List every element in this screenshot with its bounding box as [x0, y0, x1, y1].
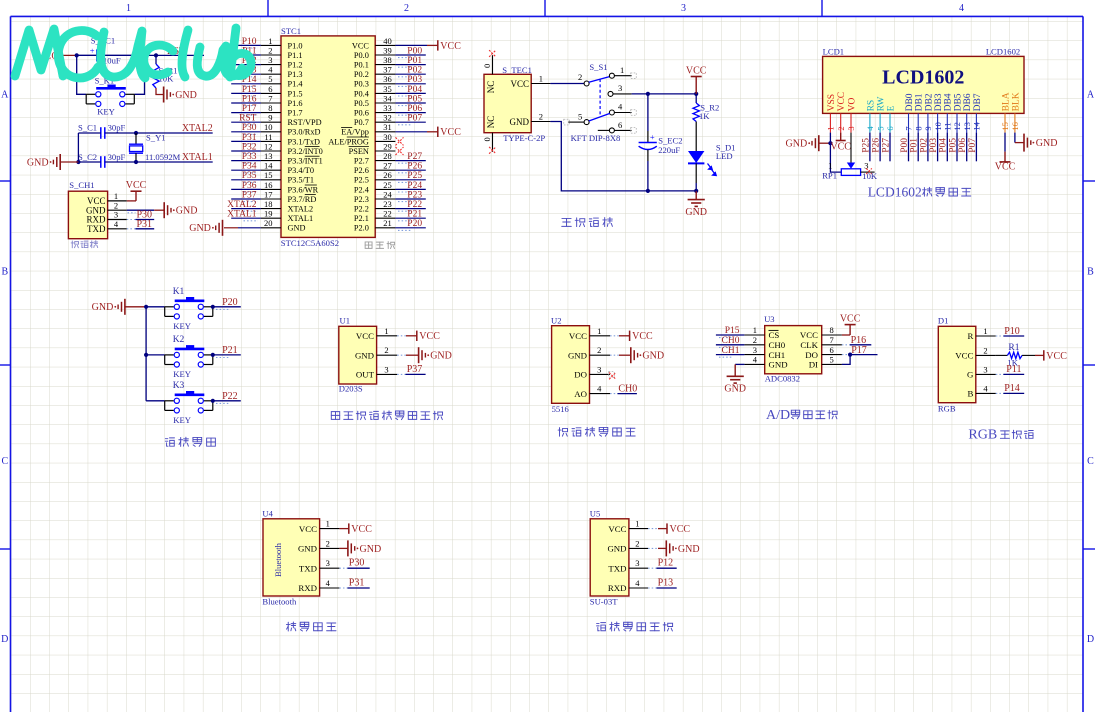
svg-text:CH1: CH1: [722, 346, 740, 356]
svg-text:P2.7: P2.7: [354, 157, 369, 166]
wire: [231, 188, 261, 190]
STC1 pin 28 P2.7: [375, 160, 395, 162]
svg-text:RS: RS: [866, 100, 876, 112]
U3 pin 7 CLK: [822, 344, 842, 346]
zone ticks left/right: [0, 180, 11, 182]
pin 1 VCC: [108, 200, 127, 202]
svg-text:1: 1: [635, 519, 639, 529]
potentiometer RP1 10K: [830, 143, 841, 172]
svg-text:DB5: DB5: [953, 93, 963, 111]
push button S_K1: [77, 55, 87, 94]
svg-text:PSEN: PSEN: [349, 147, 369, 156]
wire U3 CH0: [716, 344, 745, 346]
svg-text:8: 8: [268, 103, 272, 113]
svg-text:P30: P30: [242, 123, 257, 133]
svg-text:10: 10: [933, 122, 943, 131]
svg-text:XTAL1: XTAL1: [227, 210, 257, 220]
STC1 pin 4 P1.3: [261, 73, 281, 75]
svg-text:P16: P16: [242, 94, 257, 104]
svg-text:P07: P07: [968, 138, 978, 153]
wire pin3 P30: [127, 219, 136, 221]
svg-text:P06: P06: [407, 104, 422, 114]
resistor S_R1 10K: [155, 55, 157, 64]
wire LED to gnd: [695, 163, 697, 183]
wire: [231, 64, 261, 66]
svg-text:DO: DO: [574, 370, 587, 380]
power VCC LCD pin2: [840, 133, 842, 141]
svg-text:DB6: DB6: [963, 93, 973, 111]
svg-text:P17: P17: [242, 104, 257, 114]
svg-text:2: 2: [384, 345, 388, 355]
node gnd rail led: [694, 189, 698, 193]
svg-text:B: B: [1087, 267, 1094, 278]
svg-text:GND: GND: [189, 223, 211, 234]
svg-text:12: 12: [264, 141, 273, 151]
svg-text:TXD: TXD: [299, 563, 317, 573]
U3 pin 5 DI: [822, 363, 842, 365]
svg-text:U3: U3: [764, 314, 775, 324]
STC1 pin 23 P2.2: [375, 208, 395, 210]
svg-text:C: C: [1, 456, 8, 467]
svg-text:P00: P00: [900, 138, 910, 153]
D1 pin 1 R: [976, 335, 996, 337]
svg-text:3: 3: [983, 364, 987, 374]
svg-text:P36: P36: [242, 181, 257, 191]
ground U4: [339, 547, 348, 549]
STC1 pin 1 P1.0: [261, 44, 281, 46]
svg-text:P2.4: P2.4: [354, 185, 370, 194]
svg-text:GND: GND: [510, 117, 530, 127]
svg-text:A: A: [1087, 90, 1095, 101]
svg-text:P2.0: P2.0: [354, 224, 369, 233]
ground pin2: [127, 209, 154, 211]
svg-text:P0.1: P0.1: [354, 61, 369, 70]
wire: [395, 102, 425, 104]
ground U2: [610, 354, 619, 356]
svg-text:P32: P32: [242, 142, 257, 152]
U5 pin 4 RXD: [629, 587, 648, 589]
svg-text:D: D: [1087, 634, 1094, 645]
STC1 pin 21 P2.0: [375, 227, 395, 229]
STC1 pin 11 P3.1/TxD: [261, 140, 281, 142]
power VCC D1: [1022, 354, 1035, 356]
wire: [231, 83, 261, 85]
wire: [869, 133, 871, 162]
caption key circuit: [165, 438, 174, 446]
svg-text:P26: P26: [407, 162, 422, 172]
STC1 pin 12 P3.2/INT0: [261, 150, 281, 152]
svg-text:0: 0: [482, 64, 492, 68]
svg-text:P23: P23: [407, 190, 422, 200]
pin 1 VCC: [531, 83, 550, 85]
svg-text:32: 32: [383, 113, 392, 123]
svg-text:11.0592M: 11.0592M: [145, 152, 181, 162]
MCUclub logo: [15, 28, 251, 78]
svg-text:CH1: CH1: [769, 350, 786, 360]
svg-text:1: 1: [620, 65, 624, 75]
STC1 pin 16 P3.6/WR: [261, 188, 281, 190]
svg-text:ADC0832: ADC0832: [765, 374, 800, 384]
svg-text:C: C: [1087, 456, 1094, 467]
wire xtal2 row: [78, 132, 100, 134]
svg-text:RXD: RXD: [608, 583, 627, 593]
svg-text:3: 3: [681, 3, 686, 14]
svg-text:36: 36: [383, 74, 392, 84]
wire: [889, 133, 891, 162]
svg-text:3: 3: [384, 364, 388, 374]
svg-text:9: 9: [923, 126, 933, 130]
svg-text:GND: GND: [568, 350, 587, 360]
node reset-mid: [142, 53, 146, 57]
svg-text:CH0: CH0: [722, 336, 740, 346]
svg-text:P27: P27: [881, 138, 891, 153]
svg-text:VCC: VCC: [440, 127, 461, 138]
D1 pin 3 G: [976, 373, 996, 375]
svg-text:Bluetooth: Bluetooth: [273, 542, 283, 577]
node reset-left: [75, 53, 79, 57]
STC1 pin 19 XTAL1: [261, 217, 281, 219]
svg-text:P21: P21: [407, 210, 422, 220]
svg-text:P0.7: P0.7: [354, 118, 369, 127]
svg-text:22: 22: [383, 209, 392, 219]
STC1 pin 15 P3.5/T1: [261, 179, 281, 181]
svg-text:15: 15: [1000, 122, 1010, 131]
svg-text:VCC: VCC: [800, 330, 818, 340]
no connect: [396, 147, 404, 155]
svg-text:P3.5/T1: P3.5/T1: [288, 176, 315, 185]
svg-text:29: 29: [383, 141, 392, 151]
svg-text:3: 3: [846, 126, 856, 130]
svg-text:U4: U4: [262, 508, 273, 518]
wire: [395, 208, 425, 210]
wire: [395, 121, 425, 123]
svg-text:P12: P12: [658, 558, 674, 569]
svg-text:33: 33: [383, 103, 392, 113]
wire: [395, 188, 425, 190]
wire xtal1 row: [78, 161, 100, 163]
ground for S_R1: [156, 88, 164, 95]
svg-text:GND: GND: [1036, 138, 1058, 149]
svg-text:17: 17: [264, 189, 273, 199]
svg-text:DO: DO: [805, 350, 818, 360]
svg-text:4: 4: [959, 3, 964, 14]
STC1 pin 24 P2.3: [375, 198, 395, 200]
svg-text:13: 13: [264, 151, 273, 161]
svg-text:5: 5: [268, 74, 272, 84]
svg-text:P31: P31: [349, 578, 365, 589]
svg-text:GND: GND: [355, 350, 374, 360]
wire: [231, 121, 261, 123]
svg-text:DB3: DB3: [934, 93, 944, 111]
wire: [231, 102, 261, 104]
U4 pin 3 TXD: [320, 567, 340, 569]
svg-text:1: 1: [826, 126, 836, 130]
wire: [927, 133, 929, 162]
wire: [937, 133, 939, 162]
svg-text:GND: GND: [175, 90, 197, 101]
svg-text:LCD1602: LCD1602: [868, 185, 922, 200]
U2 pin 4 AO: [590, 393, 611, 395]
wire: [231, 150, 261, 152]
svg-text:STC12C5A60S2: STC12C5A60S2: [281, 238, 339, 248]
wire sw3 to rail: [632, 93, 697, 95]
wire U4 TXD: [339, 567, 347, 569]
svg-text:P0.2: P0.2: [354, 70, 369, 79]
svg-text:CH0: CH0: [769, 340, 786, 350]
wire: [231, 112, 261, 114]
power VCC: [695, 77, 697, 94]
svg-text:P33: P33: [242, 152, 257, 162]
svg-text:220uF: 220uF: [658, 145, 680, 155]
svg-text:VCC: VCC: [686, 66, 707, 77]
svg-text:P11: P11: [1006, 364, 1021, 375]
wire: [395, 169, 425, 171]
STC1 pin 6 P1.5: [261, 92, 281, 94]
svg-text:VCC: VCC: [1046, 351, 1067, 362]
svg-text:21: 21: [383, 218, 392, 228]
wire: [975, 133, 977, 162]
U3 pin 8 VCC: [822, 334, 842, 336]
svg-text:RXD: RXD: [298, 583, 317, 593]
wire D1 G: [996, 373, 1004, 375]
svg-text:P26: P26: [872, 138, 882, 153]
svg-text:K3: K3: [173, 381, 185, 391]
svg-text:P1.6: P1.6: [288, 99, 303, 108]
svg-text:P3.6/WR: P3.6/WR: [288, 185, 319, 194]
svg-text:1: 1: [126, 3, 131, 14]
svg-text:KEY: KEY: [173, 321, 191, 331]
wire: [956, 133, 958, 162]
wire: [231, 208, 261, 210]
svg-text:18: 18: [264, 199, 273, 209]
svg-text:P22: P22: [222, 391, 238, 402]
wire: [231, 169, 261, 171]
wire U5 RXD: [648, 587, 656, 589]
no connect: [396, 137, 404, 145]
push button K1: [146, 306, 165, 308]
STC1 pin 31 EA/Vpp: [375, 131, 395, 133]
STC1 pin 30 ALE/PROG: [375, 140, 395, 142]
svg-text:1: 1: [326, 519, 330, 529]
wire: [395, 54, 425, 56]
wire: [231, 73, 261, 75]
svg-text:30pF: 30pF: [108, 123, 126, 133]
svg-text:KEY: KEY: [97, 107, 115, 117]
pin 0 top: [492, 55, 494, 74]
svg-text:1: 1: [983, 326, 987, 336]
svg-text:VCC: VCC: [830, 142, 851, 153]
svg-text:RP1: RP1: [822, 171, 837, 181]
wire: [395, 83, 425, 85]
svg-text:0: 0: [482, 137, 492, 141]
svg-text:DB7: DB7: [973, 93, 983, 111]
STC1 pin 5 P1.4: [261, 83, 281, 85]
wire D1 B: [996, 392, 1004, 394]
svg-text:E: E: [886, 105, 896, 111]
ground U5: [648, 547, 658, 549]
svg-text:P0.3: P0.3: [354, 80, 369, 89]
svg-text:12: 12: [952, 122, 962, 131]
svg-text:P3.3/INT1: P3.3/INT1: [288, 157, 323, 166]
svg-text:DB4: DB4: [944, 93, 954, 111]
node c1c2: [76, 160, 80, 164]
U2 pin 3 DO: [590, 373, 611, 375]
svg-text:3: 3: [597, 364, 601, 374]
svg-text:XTAL2: XTAL2: [182, 123, 213, 134]
svg-text:6: 6: [618, 120, 622, 130]
svg-text:VCC: VCC: [126, 180, 147, 191]
svg-text:S_Y1: S_Y1: [146, 133, 166, 143]
svg-text:1: 1: [539, 73, 543, 83]
svg-text:1: 1: [597, 326, 601, 336]
node reset-r1: [154, 53, 158, 57]
svg-text:P1.4: P1.4: [288, 80, 304, 89]
wire key bus: [145, 307, 147, 401]
power VCC BLA: [1004, 133, 1006, 152]
svg-text:GND: GND: [685, 207, 707, 218]
node gnd rail cap: [646, 189, 650, 193]
svg-text:U1: U1: [340, 315, 351, 325]
U1 pin 2 GND: [377, 354, 398, 356]
svg-text:P02: P02: [919, 138, 929, 153]
STC1 pin 9 RST/VPD: [261, 121, 281, 123]
STC1 pin 3 P1.2: [261, 64, 281, 66]
svg-text:P07: P07: [407, 114, 422, 124]
U4 pin 4 RXD: [320, 587, 340, 589]
wire U1 out: [397, 373, 405, 375]
svg-text:P2.1: P2.1: [354, 214, 369, 223]
svg-text:13: 13: [962, 122, 972, 131]
svg-text:P01: P01: [910, 138, 920, 153]
D1 pin 2 VCC: [976, 354, 996, 356]
svg-text:P34: P34: [242, 162, 257, 172]
STC1 pin 20 GND: [261, 227, 281, 229]
node xtal1: [134, 160, 138, 164]
svg-text:24: 24: [383, 189, 392, 199]
pin name overbars: [305, 146, 320, 148]
wire U3 CLK: [842, 344, 850, 346]
svg-text:2: 2: [983, 345, 987, 355]
wire: [395, 73, 425, 75]
svg-text:2: 2: [578, 72, 582, 82]
svg-text:LED: LED: [716, 151, 733, 161]
svg-text:RGB: RGB: [938, 403, 956, 413]
svg-text:DB1: DB1: [915, 93, 925, 111]
svg-text:GND: GND: [786, 139, 808, 150]
caption PIR module: [331, 412, 339, 420]
svg-text:VCC: VCC: [995, 162, 1016, 173]
svg-text:30: 30: [383, 132, 392, 142]
svg-text:19: 19: [264, 209, 273, 219]
svg-text:G: G: [967, 370, 974, 380]
svg-text:VCC: VCC: [670, 524, 691, 535]
no connect U2 DO: [609, 372, 615, 378]
wire: [231, 44, 261, 46]
svg-text:GND: GND: [724, 384, 746, 395]
svg-text:RGB: RGB: [968, 428, 997, 443]
svg-text:GND: GND: [430, 351, 452, 362]
svg-text:GND: GND: [360, 544, 382, 555]
svg-text:A: A: [1, 90, 9, 101]
svg-text:DB0: DB0: [905, 93, 915, 111]
svg-text:D203S: D203S: [339, 384, 363, 394]
svg-text:7: 7: [904, 126, 914, 130]
zone ticks top: [267, 0, 269, 16]
svg-text:B: B: [968, 389, 974, 399]
svg-text:GND: GND: [288, 224, 306, 233]
wire: [231, 131, 261, 133]
svg-text:14: 14: [972, 121, 982, 130]
svg-text:31: 31: [383, 122, 392, 132]
push button K2: [146, 354, 165, 356]
svg-text:LCD1602: LCD1602: [986, 46, 1020, 56]
STC1 pin 8 P1.7: [261, 112, 281, 114]
svg-text:+: +: [650, 132, 655, 142]
wire U4 RXD: [339, 587, 347, 589]
svg-text:VCC: VCC: [837, 92, 847, 112]
wire: [213, 354, 241, 356]
svg-text:3: 3: [618, 83, 622, 93]
svg-text:VCC: VCC: [608, 524, 626, 534]
svg-text:2: 2: [326, 538, 330, 548]
svg-text:VCC: VCC: [955, 351, 973, 361]
pin 0 bottom: [492, 133, 494, 152]
wire: [395, 179, 425, 181]
wire LCD vo to pot: [850, 133, 852, 163]
svg-text:XTAL2: XTAL2: [227, 200, 257, 210]
svg-text:P14: P14: [1004, 383, 1020, 394]
U2 pin 2 GND: [590, 354, 611, 356]
svg-text:P1.7: P1.7: [288, 109, 303, 118]
svg-text:5: 5: [578, 112, 582, 122]
power VCC U1: [397, 335, 406, 337]
svg-text:P17: P17: [851, 345, 867, 356]
svg-text:R1: R1: [1008, 343, 1019, 353]
svg-text:S_TEC1: S_TEC1: [502, 65, 532, 75]
svg-text:7: 7: [830, 335, 834, 345]
svg-text:11: 11: [264, 132, 272, 142]
U2 pin 1 VCC: [590, 335, 611, 337]
svg-text:P31: P31: [137, 219, 153, 230]
svg-text:VCC: VCC: [510, 79, 529, 89]
svg-text:XTAL1: XTAL1: [288, 214, 314, 223]
capacitor S_EC1 10uF: [96, 49, 98, 61]
svg-text:8: 8: [830, 325, 834, 335]
svg-text:20: 20: [264, 218, 273, 228]
svg-text:P03: P03: [407, 75, 422, 85]
wire: [395, 64, 425, 66]
svg-text:RW: RW: [877, 97, 887, 112]
ground keys: [124, 299, 126, 315]
STC1 pin 32 P0.7: [375, 121, 395, 123]
wire: [395, 112, 425, 114]
wire: [879, 133, 881, 162]
svg-text:1K: 1K: [699, 111, 710, 121]
U5 pin 3 TXD: [629, 567, 648, 569]
power VCC U2: [610, 335, 619, 337]
wire U3 DO: [842, 354, 850, 356]
svg-text:P05: P05: [948, 138, 958, 153]
svg-text:GND: GND: [678, 544, 700, 555]
svg-text:XTAL2: XTAL2: [288, 205, 314, 214]
node vss: [828, 141, 832, 145]
svg-text:1: 1: [828, 160, 832, 170]
wire pin4 P31: [127, 228, 136, 230]
wire U3 DI joins DO: [842, 355, 850, 365]
capacitor S_EC2 220uF: [647, 94, 649, 131]
svg-text:D1: D1: [938, 315, 949, 325]
svg-text:GND: GND: [769, 360, 788, 370]
